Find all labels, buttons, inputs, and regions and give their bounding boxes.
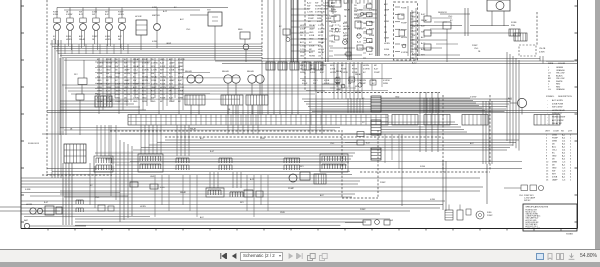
bus group Y168 (47, 169, 522, 175)
svg-text:B-07: B-07 (44, 202, 48, 204)
harness boundary dashed line centre (261, 0, 263, 62)
dashed vertical V443 (442, 95, 444, 172)
svg-text:1.25W: 1.25W (300, 45, 306, 47)
mid cross bus Y85 (62, 85, 345, 94)
svg-text:MC: MC (308, 21, 312, 23)
svg-text:0.5R/W: 0.5R/W (363, 68, 370, 70)
svg-text:PUMP: PUMP (300, 52, 306, 54)
svg-text:0.85R: 0.85R (384, 38, 390, 40)
svg-text:GND: GND (309, 32, 314, 34)
centre lower components (322, 77, 376, 88)
long vertical V402 (402, 134, 446, 211)
svg-text:0.5R/W: 0.5R/W (401, 52, 408, 54)
svg-text:FUSE: FUSE (341, 68, 347, 70)
svg-text:CN-1: CN-1 (331, 41, 335, 43)
svg-text:FUSE: FUSE (369, 35, 375, 37)
svg-text:5W/B: 5W/B (552, 141, 558, 143)
svg-text:RELAY: RELAY (309, 24, 316, 27)
svg-text:LG: LG (548, 89, 551, 91)
sheet border left (21, 0, 24, 229)
gauge G2 (66, 8, 73, 51)
bottom-left extra wires (21, 125, 150, 217)
bundle drop RB4 (483, 101, 492, 164)
dashed cab boundary bottom-left (42, 174, 112, 176)
svg-text:0.85R: 0.85R (309, 45, 315, 47)
relay risers to band (191, 105, 260, 115)
svg-text:SW: SW (313, 83, 316, 85)
svg-text:SENSOR: SENSOR (438, 12, 447, 14)
svg-text:0.5R/W: 0.5R/W (341, 72, 348, 74)
svg-text:B-07: B-07 (105, 14, 109, 16)
svg-text:ACC: ACC (421, 36, 426, 39)
svg-text:RLY: RLY (74, 74, 78, 76)
svg-text:0.85B: 0.85B (169, 70, 175, 72)
svg-text:LAMP: LAMP (166, 42, 172, 45)
centre riser labels (336, 70, 362, 94)
svg-text:0.85R: 0.85R (539, 52, 545, 54)
svg-text:ACC 0.5R/W: ACC 0.5R/W (552, 119, 564, 122)
svg-text:0.85R 0.85R 0.85R: 0.85R 0.85R 0.85R (526, 228, 541, 230)
relay K1 (221, 70, 243, 105)
svg-text:0.85B FUSE: 0.85B FUSE (552, 103, 564, 105)
svg-text:MC: MC (318, 35, 322, 37)
svg-text:MC: MC (341, 65, 345, 67)
svg-text:PUMP: PUMP (331, 12, 337, 14)
svg-text:ORANGE: ORANGE (556, 88, 565, 91)
legend table connectors (545, 131, 573, 182)
bus H134 (120, 133, 577, 135)
pump controller dashed enclosure (394, 2, 418, 60)
bookmark icon (547, 253, 553, 260)
svg-text:W: W (548, 75, 550, 77)
svg-text:RED: RED (556, 86, 561, 88)
svg-text:0.85R: 0.85R (317, 21, 323, 23)
svg-text:MC: MC (310, 65, 314, 67)
svg-text:KEY: KEY (169, 77, 174, 79)
svg-text:ACC: ACC (384, 3, 389, 6)
svg-text:LAMP: LAMP (552, 179, 558, 182)
svg-text:A-12: A-12 (79, 13, 83, 16)
centre hatch block (308, 15, 332, 23)
svg-text:HOUR: HOUR (135, 16, 142, 18)
svg-text:SW: SW (92, 14, 95, 16)
svg-text:FUSE: FUSE (352, 68, 358, 70)
svg-text:PUMP: PUMP (308, 18, 314, 20)
svg-text:GND: GND (133, 101, 138, 103)
zoom percentage (580, 253, 597, 259)
label strip UR (412, 12, 428, 65)
fuse box FL1 (28, 143, 86, 163)
label DC1 (539, 48, 546, 54)
svg-text:5W/B: 5W/B (369, 48, 374, 50)
svg-text:SW MC: SW MC (524, 200, 531, 202)
cab harness connector strip CN-B (392, 115, 560, 126)
svg-text:CN-1: CN-1 (330, 143, 334, 145)
svg-text:HORN: HORN (315, 6, 321, 8)
UR extra wires (430, 16, 481, 53)
pump controller pins (384, 3, 408, 56)
svg-text:ACC: ACC (200, 216, 205, 219)
svg-text:1.25W: 1.25W (307, 12, 313, 14)
svg-text:RELAY: RELAY (318, 41, 325, 44)
svg-text:SW: SW (106, 73, 109, 75)
svg-text:HORN: HORN (323, 6, 329, 8)
cab harness connector strip CN-A (128, 115, 388, 126)
svg-text:FUSE: FUSE (352, 72, 358, 74)
component cluster centre (343, 5, 363, 50)
bus comb marks C1 (348, 98, 363, 113)
svg-text:ACC: ACC (369, 15, 374, 18)
svg-text:0.5R/W: 0.5R/W (318, 28, 325, 30)
svg-text:HORN: HORN (105, 39, 111, 41)
gauge G7 (152, 8, 160, 49)
diode module D1 (332, 15, 340, 32)
dashed bus edge H137 (165, 136, 443, 138)
sheet border bottom (21, 229, 578, 231)
svg-text:0.5R/W: 0.5R/W (383, 80, 390, 82)
svg-text:RELAY: RELAY (384, 53, 391, 56)
svg-text:0.85B: 0.85B (330, 68, 336, 70)
svg-text:SW: SW (354, 11, 357, 13)
junction vertical bundle (99, 58, 183, 114)
svg-text:PUMP: PUMP (133, 94, 139, 96)
next page button (disabled) (288, 253, 294, 259)
svg-text:SW: SW (151, 73, 154, 75)
svg-text:SW: SW (552, 171, 555, 173)
svg-text:1.25W: 1.25W (357, 9, 363, 11)
svg-text:RELAY: RELAY (331, 28, 338, 31)
bus comb marks C2 (424, 98, 439, 113)
svg-text:LAMP: LAMP (323, 8, 329, 11)
centre cross links (291, 9, 327, 51)
separator line (0, 249, 600, 251)
svg-text:5W/B: 5W/B (280, 212, 285, 214)
svg-text:SW: SW (300, 32, 303, 34)
gauge G1 (53, 8, 60, 47)
download icon (568, 253, 575, 260)
svg-text:5W/B: 5W/B (260, 138, 265, 140)
svg-text:ACC HORN: ACC HORN (552, 99, 563, 102)
connector comb CC1 (94, 156, 113, 172)
svg-text:PUMP: PUMP (288, 188, 295, 190)
svg-text:A-12: A-12 (357, 34, 361, 37)
svg-text:0.85B: 0.85B (552, 177, 558, 179)
duplicate icon (319, 253, 328, 261)
svg-text:RELAY: RELAY (344, 28, 351, 31)
svg-text:CN-2B: CN-2B (539, 48, 546, 50)
controller internal parts (398, 6, 412, 56)
svg-text:PUMP: PUMP (169, 101, 175, 103)
svg-text:GND: GND (160, 59, 165, 61)
switch SW1 (190, 10, 222, 61)
bus labels scatter (90, 137, 475, 222)
legend table wire colours (546, 61, 574, 91)
svg-text:PUMP: PUMP (97, 66, 103, 68)
svg-text:MC: MC (106, 80, 110, 82)
horn H1 (26, 204, 60, 214)
connector X2 (362, 120, 381, 135)
connector comb CC6 (320, 154, 348, 172)
right trunk bundle (507, 52, 519, 151)
svg-text:HORN: HORN (309, 56, 315, 58)
svg-text:0.85B: 0.85B (105, 36, 111, 38)
last page button (disabled) (296, 253, 303, 259)
comb risers (97, 125, 189, 156)
riser V443 solid (442, 160, 444, 210)
svg-text:UNIT: UNIT (545, 131, 550, 133)
svg-text:SW: SW (307, 6, 310, 8)
riser bundle RB2 (310, 62, 322, 134)
two page icon (556, 253, 564, 260)
svg-text:HORN RELAY: HORN RELAY (552, 109, 566, 112)
svg-text:GREEN: GREEN (556, 67, 564, 69)
connector comb CC3 (176, 158, 189, 170)
svg-text:CODE: CODE (553, 131, 559, 133)
alternator A1 (508, 97, 527, 115)
connector row CR1 (266, 62, 323, 70)
svg-text:SYMBOL: SYMBOL (546, 96, 555, 98)
svg-text:FUSE: FUSE (511, 22, 517, 24)
page combo box (240, 252, 283, 261)
svg-text:HORN: HORN (320, 65, 326, 67)
svg-text:KEY: KEY (160, 70, 165, 72)
svg-text:RELAY: RELAY (331, 15, 338, 18)
svg-text:SW: SW (348, 83, 351, 85)
svg-text:1.25W LAMP: 1.25W LAMP (524, 197, 536, 200)
svg-text:FUSE: FUSE (384, 49, 390, 51)
connector X3 (371, 148, 381, 160)
svg-text:GND: GND (552, 156, 557, 158)
svg-text:LAMP: LAMP (169, 79, 175, 82)
svg-text:FUSE: FUSE (151, 80, 157, 82)
harness bundle HB1 (381, 98, 485, 111)
harness bundle HB2 (381, 122, 467, 132)
svg-text:RELAY: RELAY (190, 128, 197, 131)
svg-text:ACC: ACC (169, 58, 174, 61)
vertical V385 (385, 0, 387, 42)
wiper motor M1 (487, 0, 510, 26)
left edge wire stubs (0, 207, 21, 211)
svg-text:RELAY MC: RELAY MC (552, 122, 563, 125)
svg-text:B-07: B-07 (366, 143, 370, 145)
svg-text:ACC: ACC (180, 18, 185, 21)
centre tick wires (329, 6, 366, 58)
svg-text:PUMP: PUMP (552, 138, 558, 140)
svg-text:RED: RED (556, 84, 561, 86)
legend table symbols (546, 96, 572, 125)
svg-text:RELAY: RELAY (318, 51, 325, 54)
svg-text:SW: SW (315, 3, 318, 5)
fuel pump FP1 (445, 205, 493, 221)
svg-text:GND: GND (552, 168, 557, 170)
svg-text:0.85B: 0.85B (53, 14, 59, 16)
svg-text:PUMP: PUMP (401, 22, 407, 24)
svg-text:SW: SW (412, 17, 415, 19)
svg-text:1.25W: 1.25W (318, 25, 324, 27)
svg-text:HORN: HORN (66, 39, 72, 41)
svg-text:HORN: HORN (384, 43, 390, 45)
svg-text:MC: MC (374, 65, 378, 67)
svg-text:0.85R: 0.85R (310, 72, 316, 74)
svg-text:PUMP: PUMP (357, 16, 363, 18)
svg-text:FUSE: FUSE (420, 166, 426, 168)
svg-text:SW: SW (390, 220, 393, 222)
fuse block FB1 (509, 22, 527, 41)
svg-text:FUSE: FUSE (66, 36, 72, 38)
vertical pair V465 (465, 8, 468, 36)
mid-bottom risers (210, 172, 241, 188)
dashed closure H172 (360, 171, 490, 173)
first page button (220, 253, 227, 259)
svg-text:A-12: A-12 (250, 178, 254, 181)
svg-text:CN-1: CN-1 (448, 16, 452, 18)
svg-text:CN-1: CN-1 (186, 29, 190, 31)
svg-text:W: W (548, 81, 550, 83)
top fuse F0 (329, 0, 341, 14)
fit page icon (active) (536, 253, 544, 261)
svg-text:PUMP: PUMP (472, 45, 478, 47)
svg-text:LAMP: LAMP (309, 27, 315, 30)
svg-text:RELAY: RELAY (247, 70, 255, 73)
svg-text:PUMP: PUMP (487, 215, 493, 217)
misc top labels (152, 7, 190, 45)
svg-text:CN-1: CN-1 (95, 197, 99, 199)
svg-text:ACC: ACC (309, 51, 314, 54)
bus group Y201 (21, 201, 445, 205)
svg-text:RELAY: RELAY (222, 70, 230, 73)
svg-text:0.5G: 0.5G (160, 187, 165, 189)
centre dense text fill (331, 2, 375, 56)
wire W-u1 (410, 14, 520, 33)
svg-text:LAMP: LAMP (310, 67, 316, 70)
bus group Y178 (21, 178, 483, 187)
gauge G3 (79, 8, 86, 49)
svg-text:GND: GND (150, 176, 155, 178)
bus group Y140 (42, 134, 577, 150)
svg-text:RELAY: RELAY (185, 70, 193, 73)
svg-text:0.5R/W: 0.5R/W (66, 14, 73, 16)
fuse ladder F-row (364, 4, 373, 51)
svg-text:HORN: HORN (118, 14, 124, 16)
bottom mesh fill (155, 134, 399, 217)
dashed block boundary H92 (317, 92, 440, 94)
svg-text:GND: GND (309, 39, 314, 41)
svg-text:FUSE: FUSE (401, 8, 407, 10)
svg-text:1.25W: 1.25W (323, 3, 329, 5)
sensor S2 (438, 12, 451, 62)
bus group Y208 (21, 208, 440, 214)
svg-text:0.85B: 0.85B (324, 80, 330, 82)
svg-text:NO: NO (561, 131, 564, 133)
gauge G4 (92, 8, 99, 51)
svg-text:5W/B: 5W/B (383, 83, 389, 85)
svg-text:FUSE: FUSE (97, 73, 103, 75)
svg-text:0.85B: 0.85B (430, 199, 436, 201)
svg-text:FUEL: FUEL (487, 212, 492, 214)
relay K3 (185, 70, 205, 105)
harness boundary dashed line right (536, 12, 538, 46)
svg-text:A-12: A-12 (357, 40, 361, 43)
svg-text:SW: SW (97, 77, 100, 79)
centre lower extension labels (300, 65, 380, 74)
svg-text:ACC: ACC (118, 35, 123, 38)
svg-text:5W/B: 5W/B (115, 94, 121, 96)
left feeder wires (60, 58, 146, 135)
svg-text:FUSE BOX: FUSE BOX (28, 143, 40, 145)
svg-text:PUMP: PUMP (380, 182, 386, 184)
svg-text:PUMP: PUMP (360, 209, 366, 211)
UR pin tick column (411, 12, 414, 60)
svg-text:RES: RES (238, 29, 243, 31)
svg-text:YELLOW: YELLOW (556, 73, 564, 75)
svg-text:PUMP: PUMP (318, 32, 324, 34)
centre top extra ticks (332, 0, 377, 18)
svg-text:1.25W: 1.25W (369, 9, 375, 11)
svg-text:KEY: KEY (169, 94, 174, 96)
svg-text:PUMP: PUMP (374, 72, 380, 74)
svg-text:0.85R: 0.85R (384, 21, 390, 23)
svg-text:GND: GND (115, 77, 120, 79)
svg-text:B-07: B-07 (210, 151, 214, 153)
svg-text:SW 0.5R/W: SW 0.5R/W (552, 107, 563, 109)
svg-text:GND: GND (97, 80, 102, 82)
dashed bus edge H131 (110, 130, 340, 132)
svg-text:X9JBB: X9JBB (566, 234, 573, 236)
svg-text:5W/B: 5W/B (552, 135, 558, 137)
bus group Y191 (60, 191, 480, 197)
svg-text:KEY: KEY (330, 65, 335, 67)
wires right top (215, 26, 577, 64)
centre label stacks 2 (300, 24, 325, 58)
connector X1 (362, 96, 381, 112)
svg-text:WIRE: WIRE (548, 63, 554, 65)
svg-text:PUMP: PUMP (92, 36, 98, 38)
svg-text:0.85R: 0.85R (169, 66, 175, 68)
svg-text:GND: GND (151, 101, 156, 103)
svg-text:FUSE: FUSE (331, 22, 337, 24)
svg-text:HORN: HORN (308, 15, 314, 17)
svg-text:SW: SW (412, 26, 415, 28)
svg-text:ACC: ACC (200, 137, 205, 140)
notes box (523, 204, 577, 231)
connector comb CC4 (219, 158, 232, 170)
svg-text:MC: MC (309, 49, 313, 51)
monitor bus wires (50, 44, 262, 60)
bus Y127 (60, 128, 340, 131)
svg-text:SW: SW (344, 3, 347, 5)
svg-text:1.25W: 1.25W (151, 70, 157, 72)
svg-text:PUMP: PUMP (318, 39, 324, 41)
svg-text:HORN: HORN (363, 65, 369, 67)
svg-text:LG: LG (548, 73, 551, 75)
controller box MC (95, 94, 112, 108)
new window icon (307, 253, 316, 261)
svg-text:0.5R/W: 0.5R/W (470, 97, 477, 99)
svg-text:CN-1: CN-1 (474, 48, 478, 50)
hour meter HM1 (135, 16, 147, 50)
svg-text:HORN: HORN (318, 49, 324, 51)
resistor R1 (238, 29, 250, 62)
centre riser bundle to band (334, 62, 362, 99)
svg-text:0.5R/W: 0.5R/W (97, 63, 104, 65)
trunk T3 edges (376, 0, 379, 56)
svg-text:ACC: ACC (79, 35, 84, 38)
svg-text:ACC: ACC (470, 142, 475, 145)
harness boundary dashed line left (46, 0, 48, 176)
svg-text:ACC: ACC (369, 40, 374, 43)
svg-text:RELAY: RELAY (344, 8, 351, 11)
svg-text:5W/B: 5W/B (317, 18, 323, 20)
